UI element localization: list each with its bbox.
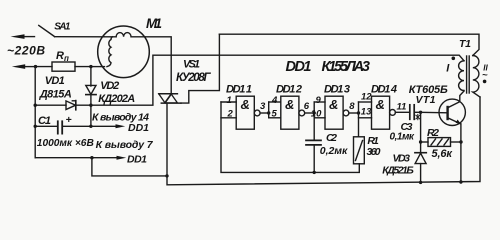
svg-text:С1: С1 [38, 115, 51, 127]
wire arrow to pin 14 [91, 124, 125, 128]
rail gate4 inputs [358, 102, 360, 137]
svg-text:I: I [446, 63, 450, 75]
wire bottom left to pin 7 [35, 157, 92, 159]
gate DD1.4 [359, 96, 410, 129]
svg-text:11: 11 [397, 102, 407, 113]
svg-text:DD1: DD1 [127, 153, 147, 165]
svg-text:SA1: SA1 [54, 22, 71, 33]
svg-text:&: & [241, 97, 250, 112]
svg-text:DD1: DD1 [128, 122, 149, 134]
wire triac gate to top rail [181, 34, 219, 103]
node dot VD3 bottom [419, 181, 422, 184]
capacitor C3 [410, 105, 421, 120]
svg-text:Rп: Rп [56, 50, 69, 63]
svg-text:КД202А: КД202А [98, 93, 135, 105]
node dot VD2 rail top [89, 65, 92, 68]
svg-text:DD1 1: DD1 1 [226, 84, 252, 96]
svg-text:К выводу 7: К выводу 7 [96, 139, 154, 151]
svg-text:М1: М1 [146, 16, 162, 31]
svg-text:8: 8 [349, 101, 355, 112]
rail gate3 inputs [313, 102, 315, 140]
node dot gate3 out [357, 111, 360, 114]
svg-text:&: & [285, 97, 294, 112]
svg-text:5,6к: 5,6к [432, 148, 454, 160]
svg-text:&: & [329, 97, 338, 112]
svg-text:1: 1 [227, 95, 232, 106]
node dot R2 left [419, 140, 422, 143]
node dot gate2 out [313, 111, 316, 114]
wire node down through R2 junction [420, 112, 422, 152]
node dot triac bottom [165, 174, 168, 177]
svg-text:КД521Б: КД521Б [382, 164, 414, 176]
wire mains terminal 1 arrow [11, 34, 35, 39]
rail gate2 inputs [268, 102, 270, 118]
svg-text:5: 5 [272, 108, 278, 119]
arrow to pin 7 [92, 156, 126, 160]
top rail wire to T1 secondary [219, 34, 479, 55]
svg-text:Т1: Т1 [459, 38, 471, 50]
svg-text:VT1: VT1 [416, 94, 436, 106]
wire VD1 node to T1 primary [91, 55, 464, 105]
svg-text:4: 4 [271, 95, 278, 106]
svg-text:6: 6 [304, 101, 310, 112]
wire gate1 input rail [221, 102, 359, 172]
svg-text:2: 2 [227, 108, 234, 119]
node dot C2 bottom [313, 171, 316, 174]
svg-text:+: + [66, 114, 72, 126]
svg-text:VD1: VD1 [45, 75, 65, 87]
node dot VD1 left [34, 104, 37, 107]
svg-text:КУ208Г: КУ208Г [176, 72, 211, 84]
svg-text:&: & [376, 97, 385, 112]
node dot R2 right [459, 140, 462, 143]
node dot pin7 branch [90, 156, 93, 159]
transistor VT1 [439, 99, 465, 125]
svg-text:К155ЛА3: К155ЛА3 [322, 59, 371, 75]
svg-text:13: 13 [361, 106, 372, 117]
wire motor to triac anode [145, 37, 171, 94]
svg-text:R2: R2 [427, 127, 439, 139]
label selection star [416, 114, 420, 119]
bottom rail wire [167, 97, 480, 185]
svg-text:0,2мк: 0,2мк [320, 145, 348, 157]
svg-text:VD2: VD2 [100, 80, 119, 92]
svg-text:~220В: ~220В [7, 44, 45, 58]
transformer T1 [459, 56, 480, 98]
zener VD1 [35, 101, 91, 110]
svg-text:VD3: VD3 [393, 152, 411, 164]
svg-text:Д815А: Д815А [39, 88, 72, 100]
svg-text:R1: R1 [367, 135, 379, 147]
left rail wire [34, 67, 36, 158]
svg-text:3: 3 [260, 101, 266, 112]
svg-text:12: 12 [361, 92, 372, 103]
capacitor C2 [306, 140, 321, 172]
resistor R1 [354, 137, 365, 164]
gate DD1.3 [314, 96, 358, 129]
node dot C1 left [34, 125, 37, 128]
triac VS1 [159, 94, 181, 176]
svg-text:DD1 3: DD1 3 [324, 84, 350, 96]
capacitor C1 [35, 121, 91, 133]
gate DD1.2 [269, 96, 315, 129]
wire step to triac cathode [92, 158, 167, 176]
node dot base [419, 111, 422, 114]
svg-text:1000мк ×6В: 1000мк ×6В [37, 138, 94, 149]
svg-text:360: 360 [367, 146, 381, 158]
polarity dot primary [452, 57, 456, 61]
diode VD2 [86, 67, 96, 127]
switch SA1 [39, 25, 55, 36]
wire Rn to motor [91, 66, 105, 68]
svg-text:VS1: VS1 [183, 58, 200, 70]
wire mains terminal 2 arrow [12, 64, 36, 69]
gate DD1.1 [221, 96, 269, 129]
wire base node to VT1 [421, 111, 448, 114]
svg-text:DD1 4: DD1 4 [371, 84, 397, 96]
node dot emitter bottom [459, 180, 462, 183]
wire emitter to bottom rail [460, 124, 462, 182]
wire switch to motor [55, 36, 104, 38]
diode VD3 [415, 153, 426, 183]
wire collector to T1 primary [460, 91, 464, 102]
svg-text:DD1: DD1 [286, 59, 312, 75]
svg-text:С2: С2 [326, 132, 337, 144]
svg-text:~: ~ [482, 70, 488, 81]
resistor R2 [421, 138, 461, 147]
svg-text:10: 10 [311, 108, 322, 119]
svg-text:9: 9 [316, 95, 322, 106]
svg-text:0,1мк: 0,1мк [390, 131, 415, 142]
svg-text:DD1 2: DD1 2 [276, 84, 302, 96]
motor M1 [98, 26, 150, 78]
node dot VD1 right [89, 104, 92, 107]
polarity dot secondary [483, 80, 487, 84]
resistor Rn [36, 62, 91, 71]
node dot gate1 out [267, 111, 270, 114]
node dot left rail top [34, 65, 37, 68]
node dot C1 right [89, 125, 92, 128]
